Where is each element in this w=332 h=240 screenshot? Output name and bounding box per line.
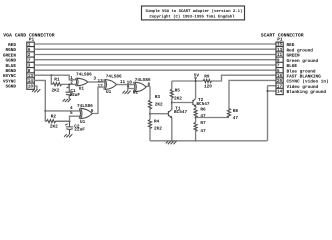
svg-text:2K2: 2K2 <box>174 96 182 101</box>
wire BLUE to SCART 7 <box>34 64 276 66</box>
svg-text:4: 4 <box>70 106 73 111</box>
svg-text:74LS86: 74LS86 <box>76 72 92 77</box>
wire BGND to SCART 5 <box>34 69 276 71</box>
node VSYNC/pin4 branch <box>44 110 46 112</box>
svg-text:U1: U1 <box>79 86 85 91</box>
node HSYNC/R1 junction <box>50 74 52 76</box>
svg-text:Red ground: Red ground <box>287 47 314 53</box>
resistor R3 <box>148 86 163 109</box>
wire SCART ground drop <box>267 86 269 141</box>
svg-text:Simple VGA to SCART adapter (v: Simple VGA to SCART adapter (version 2.1… <box>146 9 243 14</box>
wire R1 to C1 node <box>61 83 76 85</box>
svg-text:10: 10 <box>28 84 34 89</box>
node T1 collector / base T2 <box>171 102 173 104</box>
svg-text:BC547: BC547 <box>196 102 210 107</box>
wire to T2 base <box>172 102 193 104</box>
bottom ground rail <box>150 140 268 142</box>
wire T1 emitter to rail <box>171 118 173 140</box>
resistor R6 <box>194 107 206 119</box>
connector P1 (SCART) <box>276 38 283 95</box>
ground below C2 <box>64 134 72 137</box>
wire RED to SCART 15 <box>34 43 276 45</box>
svg-text:R8: R8 <box>233 109 239 114</box>
op-amp gate U1B (XOR 74LS86) <box>79 108 92 118</box>
svg-text:Video ground: Video ground <box>287 84 319 90</box>
svg-text:Copyright (C) 1993-1995 Tomi E: Copyright (C) 1993-1995 Tomi Engdahl <box>150 15 236 20</box>
wire R3 to junction <box>149 108 151 120</box>
svg-text:2K2: 2K2 <box>52 89 60 94</box>
op-amp gate U1A (XOR 74LS86) <box>76 78 89 86</box>
svg-text:R2: R2 <box>51 115 57 120</box>
wire T2 emitter to R6 <box>195 107 197 108</box>
svg-text:47: 47 <box>200 129 206 134</box>
wire T2 collector riser to 5V <box>195 81 197 98</box>
resistor R7 <box>194 121 206 134</box>
svg-text:R3: R3 <box>155 95 161 100</box>
svg-text:47: 47 <box>200 114 206 119</box>
svg-text:Green ground: Green ground <box>287 58 319 64</box>
wire T1 collector riser <box>171 103 173 110</box>
connector P1 (VGA) <box>27 38 35 90</box>
ground at gate D pin 9 <box>122 89 133 95</box>
svg-text:R7: R7 <box>200 121 206 126</box>
wire gate B out riser to pin 12 <box>92 87 103 113</box>
svg-text:SGND: SGND <box>5 85 16 90</box>
ground at SGND pin 10 <box>32 86 40 92</box>
resistor R8 <box>227 108 238 121</box>
svg-text:47: 47 <box>233 116 239 121</box>
resistor R5 <box>170 81 182 110</box>
transistor T1 BC547 <box>168 107 187 118</box>
svg-text:22uF: 22uF <box>70 93 81 98</box>
wire base to T1 <box>150 113 168 115</box>
svg-text:14: 14 <box>28 79 34 84</box>
svg-text:6: 6 <box>91 109 94 114</box>
svg-text:3: 3 <box>93 76 96 81</box>
svg-text:CSYNC (video in): CSYNC (video in) <box>287 79 329 85</box>
wire R9 to SCART 16 <box>211 75 276 81</box>
op-amp gate U1D (XOR 74LS86) <box>134 82 147 92</box>
svg-text:2: 2 <box>70 81 73 86</box>
node R7 rail junction <box>195 140 197 142</box>
VGA pin name labels <box>3 43 17 90</box>
wire R7 to rail <box>195 130 197 141</box>
resistor R4 <box>148 120 162 132</box>
node 5V <box>195 80 197 82</box>
wire R1 drop <box>51 75 52 84</box>
wire gate D out to R3 <box>146 85 150 87</box>
svg-text:GGND: GGND <box>5 59 16 64</box>
node C1 <box>68 84 70 86</box>
svg-text:74LS86: 74LS86 <box>106 75 122 80</box>
wire R6 to csync node <box>195 114 197 122</box>
svg-text:U1: U1 <box>80 120 86 125</box>
power 5V <box>194 74 200 81</box>
svg-text:BC547: BC547 <box>174 110 188 115</box>
wire R4 to rail <box>149 127 151 141</box>
wire SCART 14 <box>268 90 277 92</box>
wire gate A out to gate C <box>88 81 104 83</box>
resistor R9 <box>203 75 212 90</box>
svg-text:13: 13 <box>277 48 283 53</box>
op-amp gate U1C (XOR 74LS86) <box>104 80 117 90</box>
svg-text:120: 120 <box>204 84 212 89</box>
svg-text:22uF: 22uF <box>74 128 85 133</box>
ground below C1 <box>63 99 71 102</box>
wire to gate B pin 4 <box>45 110 80 112</box>
SCART pin name labels <box>287 43 329 95</box>
wire GREEN to SCART 11 <box>34 54 276 56</box>
svg-text:R6: R6 <box>200 107 206 112</box>
svg-text:Blanking ground: Blanking ground <box>287 89 327 95</box>
svg-text:2K2: 2K2 <box>155 102 163 107</box>
svg-text:RGND: RGND <box>5 48 16 53</box>
svg-text:2K2: 2K2 <box>154 126 162 131</box>
ground symbol on rail <box>166 141 177 144</box>
wire 5V rail to R5 <box>172 80 203 82</box>
wire HSYNC <box>34 75 75 80</box>
wire R8 to SCART 20 <box>229 80 276 110</box>
node C2 <box>69 120 71 122</box>
capacitor C2 <box>65 122 85 135</box>
svg-text:20: 20 <box>277 79 283 84</box>
capacitor C1 <box>66 85 81 100</box>
wire csync node to R8 <box>196 117 229 119</box>
svg-text:5: 5 <box>70 111 73 116</box>
node SCART 14 junction <box>267 90 269 92</box>
svg-text:5V: 5V <box>194 74 200 79</box>
svg-text:9: 9 <box>277 58 280 63</box>
wire VSYNC <box>34 80 45 121</box>
node T1 emitter rail junction <box>171 140 173 142</box>
node base junction <box>149 113 151 115</box>
svg-text:17: 17 <box>277 84 283 89</box>
svg-text:U1: U1 <box>133 90 139 95</box>
svg-text:VSYNC: VSYNC <box>3 79 17 84</box>
wire SCART 17 <box>268 85 277 87</box>
svg-text:14: 14 <box>277 90 283 95</box>
wire GGND to SCART 9 <box>34 59 276 61</box>
svg-text:11: 11 <box>120 80 126 85</box>
svg-text:R4: R4 <box>154 120 160 125</box>
transistor T2 BC547 <box>193 98 210 107</box>
svg-text:6: 6 <box>28 48 31 53</box>
resistor R2 <box>45 115 69 130</box>
svg-text:7: 7 <box>28 58 31 63</box>
wire RGND to SCART 13 <box>34 48 276 50</box>
svg-text:2K2: 2K2 <box>50 124 58 129</box>
title box <box>142 6 245 20</box>
resistor R1 <box>52 78 62 94</box>
svg-text:U1: U1 <box>106 90 112 95</box>
wire gate C out to gate D <box>117 84 134 86</box>
node csync <box>195 117 197 119</box>
svg-text:R5: R5 <box>175 88 181 93</box>
wire C2 node riser to gate B pin 5 <box>70 116 81 121</box>
